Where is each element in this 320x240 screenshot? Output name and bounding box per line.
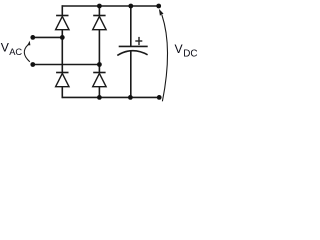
svg-text:DC: DC <box>183 48 197 59</box>
svg-text:AC: AC <box>9 47 22 57</box>
svg-text:V: V <box>175 42 184 56</box>
